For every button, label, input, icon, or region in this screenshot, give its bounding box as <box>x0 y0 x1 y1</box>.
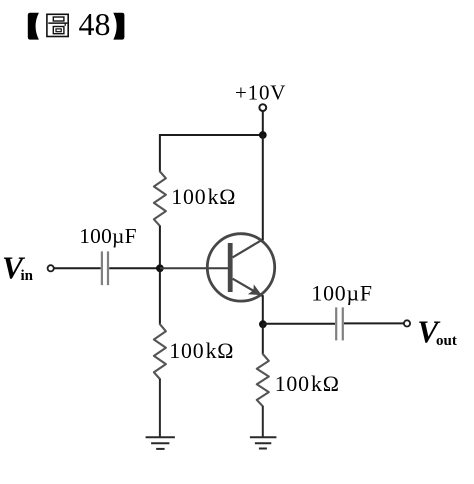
ground (right, emitter) <box>250 437 277 448</box>
terminal Vout open circle <box>404 320 410 326</box>
resistor R1 100kΩ (upper bias) <box>154 172 166 226</box>
svg-text:100kΩ: 100kΩ <box>275 372 340 396</box>
resistor R3 100kΩ (emitter) <box>257 354 269 406</box>
transistor Q1 <box>207 234 274 301</box>
svg-text:in: in <box>21 268 34 284</box>
svg-text:out: out <box>436 333 457 349</box>
wire: left branch vertical, top junction to R1 <box>159 134 161 172</box>
wire: collector rail down to transistor <box>262 135 264 240</box>
capacitor C2 100µF (output) <box>336 307 343 340</box>
svg-text:100kΩ: 100kΩ <box>169 339 234 363</box>
wire: output node down to R3 <box>262 324 264 354</box>
resistor R2 100kΩ (lower bias) <box>154 324 166 379</box>
terminal Vin open circle <box>48 265 54 271</box>
svg-text:100µF: 100µF <box>311 281 372 305</box>
wire: +10V terminal down to top junction <box>262 111 264 135</box>
svg-text:+10V: +10V <box>235 80 286 104</box>
wire: Vin terminal to C1 <box>54 267 101 269</box>
junction dot base node <box>156 264 164 272</box>
terminal +10V open circle <box>259 104 266 111</box>
capacitor C1 100µF (input) <box>102 251 108 285</box>
wire: R1 bottom to base node and on to R2 <box>159 226 161 324</box>
svg-text:48: 48 <box>79 6 111 42</box>
wire: output node to C2 <box>263 323 335 325</box>
wire: R3 to ground <box>262 406 264 437</box>
wire: C1 to base node <box>109 267 160 269</box>
junction dot at +10V rail <box>259 131 267 139</box>
svg-text:100kΩ: 100kΩ <box>171 185 236 209</box>
svg-text:100µF: 100µF <box>79 224 137 248</box>
wire: R2 bottom to ground <box>159 379 161 437</box>
wire: base node to transistor base <box>160 267 228 269</box>
junction dot output node <box>259 320 267 328</box>
wire: emitter to output node <box>262 295 264 324</box>
wire: top horizontal from divider to collector rail <box>160 134 263 136</box>
title 【圖 48】 <box>28 6 125 42</box>
wire: C2 to Vout terminal <box>344 322 404 324</box>
ground (left, divider) <box>146 437 175 449</box>
